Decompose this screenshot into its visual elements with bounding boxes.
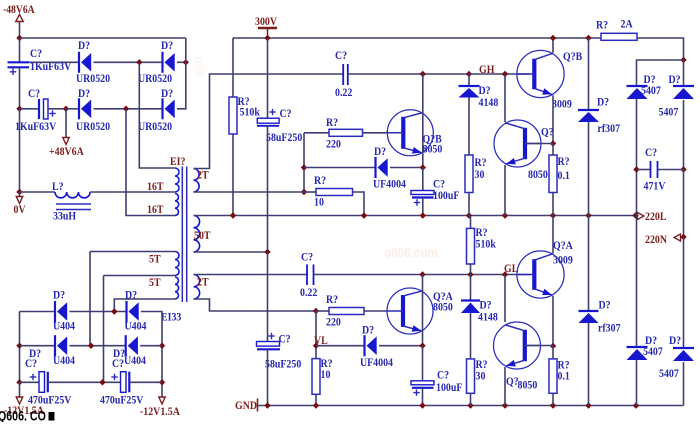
svg-text:-12V1.5A: -12V1.5A [140,405,180,418]
svg-text:GL: GL [504,262,518,275]
capacitor C10 plus sign [30,374,36,380]
resistor R510k lower [467,228,475,264]
junction +48V6A tap [63,106,69,112]
label R? of R10 lower [321,357,333,370]
wire emitter node to C5 [422,168,424,191]
wire left rail down to 0V [19,109,21,192]
svg-text:C?: C? [335,49,347,62]
wire D12 down to cap row [683,100,685,170]
wire -48V6A stem [19,22,21,39]
label D? of D6 [362,324,374,337]
junction gnd rail x470 [467,402,473,408]
value 0.22 of C4 [335,86,352,99]
junction right column cap row [159,379,165,385]
svg-text:2T: 2T [197,169,209,182]
value 1KuF63V of C1 [30,60,71,73]
diode D10 H307 lower [579,311,599,323]
wire branch to left output column [637,60,684,86]
junction GL at PNP branch lower [502,271,508,277]
junction mid rail x553 [550,212,556,218]
junction right column row2 [159,343,165,349]
svg-text:D?: D? [161,39,173,52]
svg-text:D?: D? [597,96,609,109]
svg-text:0V: 0V [14,203,26,216]
diode D2 UR0520 [163,52,175,73]
wire base rail bottom to R220 lower [316,310,329,312]
wire Q3 collector up [552,38,554,53]
svg-text:rf307: rf307 [598,122,621,135]
value 510k of R510k upper [240,106,261,119]
svg-text:EI?: EI? [170,155,185,168]
wire 4148 upper vertical [468,74,470,86]
value 510k of R510k lower [476,238,497,251]
wire R510k down to 50T rail [232,134,234,216]
junction mid rail x588 [585,212,591,218]
diode D13 5407 [627,347,648,360]
capacitor C3 plus sign [269,109,275,115]
label R? of R30 lower [476,358,488,371]
faint watermark smudge 2 [194,57,207,75]
capacitor C2 1KuF63V plates [39,99,48,119]
wire cap row segment 1 [20,381,40,383]
value 8050 of Q2 [433,301,453,314]
resistor R220 upper [329,129,363,136]
value 3009 of Q5 [553,254,573,267]
wire base rail left vertical [303,133,305,192]
resistor R10 upper [316,189,353,196]
turns label 5T upper [149,253,161,266]
resistor R0.1 lower [549,359,557,393]
wire R220 lower to Q2 base [364,310,387,312]
junction gnd rail x637 [633,402,639,408]
wire Q6 emitter down to gnd rail [504,367,506,406]
transistor Q4 Q? 8050 PNP upper [494,120,541,167]
svg-text:D?: D? [53,289,65,302]
capacitor C5 100uF plates [411,191,434,198]
capacitor C8 58uF250 plates [257,342,281,350]
label Q? of Q6 [506,375,519,388]
value 5407 of D11 [641,84,661,97]
transformer winding 2T lower right [194,275,200,300]
wire 2T upper top pin [194,74,344,169]
svg-text:30: 30 [476,370,486,383]
label D? of D14 [669,334,681,347]
diode D7 4148 upper [459,86,480,98]
svg-text:UF4004: UF4004 [373,178,406,191]
inductor L1 core lines [56,204,91,210]
transformer winding 5T upper [175,252,179,276]
value UR0520 of D2 [138,72,173,85]
junction cap row mid [99,379,105,385]
wire R0.1 lower to gnd rail [552,393,554,405]
net label -12V1.5A right [140,405,180,418]
svg-text:220N: 220N [645,233,667,246]
watermark square [49,412,55,421]
svg-text:0.1: 0.1 [558,169,570,182]
svg-text:100uF: 100uF [436,381,463,394]
junction u404 row2 node [88,343,94,349]
svg-text:33uH: 33uH [53,210,77,223]
value 4148 of D7 [479,96,499,109]
transistor Q6 Q? 8050 PNP lower [494,322,541,369]
value UR0520 of D3 [76,120,111,133]
junction Q2 emitter node [419,343,425,349]
value 8050 of Q6 [518,379,538,392]
value 4148 of D9 [478,311,498,324]
label D? of D1 [78,39,90,52]
junction mid rail x422 [420,212,426,218]
capacitor C1 plus sign [10,69,16,75]
svg-text:1KuF63V: 1KuF63V [15,120,56,133]
resistor R30 upper [465,155,473,193]
svg-text:2A: 2A [621,18,633,31]
label D? of D2 [161,39,173,52]
svg-text:16T: 16T [147,180,164,193]
svg-text:510k: 510k [240,106,261,119]
svg-text:Q606. CO: Q606. CO [0,408,46,422]
net label +48V6A [49,145,84,158]
label EI33 of transformer [161,311,182,324]
capacitor C7 100uF plates [411,381,434,388]
diode D14 5407 [673,348,694,361]
label C? of C7 [437,369,449,382]
junction GH at PNP branch [502,71,508,77]
label D? of D9 [480,299,492,312]
svg-text:R?: R? [558,155,570,168]
wire u404 row1 left [20,311,56,313]
diode D17 U404 [55,335,67,356]
value UF4004 of D6 [360,356,393,369]
wire GH to 3009 base [469,73,529,75]
label C? of C5 [433,178,445,191]
wire D13 down to gnd rail [636,360,638,406]
junction mid rail x505 [502,212,508,218]
value 220 of R220 upper [326,138,341,151]
svg-text:UR0520: UR0520 [76,72,111,85]
junction right rail branch [680,57,686,63]
svg-text:30: 30 [475,168,485,181]
wire node x139 down to 16T top pin [139,62,175,168]
wire Q6 base to node [525,345,554,347]
value 0.22 of C6 [300,286,317,299]
watermark text [0,408,46,424]
wire D14 down to gnd rail corner [683,362,685,406]
value 100uF of C7 [436,381,463,394]
svg-text:C?: C? [25,357,37,370]
value 3009 of Q3 [552,98,572,111]
net label 300V [255,15,277,28]
wire left rail to C1 top [19,38,21,62]
value 0.1 of R0.1 upper [558,169,570,182]
wire row2 to D3 [66,108,79,110]
junction cap 471V right [680,166,686,172]
label D? of D16 [125,289,137,302]
value 100uF of C5 [433,189,460,202]
wire VL rail to UF4004 lower [316,345,365,347]
svg-text:5407: 5407 [643,345,663,358]
wire H307 upper vertical top [588,38,590,110]
wire 5T top pin [90,251,175,253]
svg-text:C?: C? [279,333,291,346]
wire +48V6A stem [65,109,67,138]
faint watermark smudge 1 [384,245,438,260]
diode D12 5407 [673,86,694,99]
inductor L1 coil [55,192,90,198]
svg-text:8050: 8050 [433,301,453,314]
junction mid rail x469 [466,212,472,218]
svg-text:C?: C? [645,146,657,159]
wire GH branch down to PNP collector [504,74,506,122]
svg-text:5407: 5407 [641,84,661,97]
value rf307 of D8 [598,122,621,135]
wire ground rail [258,405,684,407]
wire C8 down to gnd rail [267,349,269,405]
wire GL rail [194,274,530,276]
label C? of C11 [112,357,124,370]
svg-text:8050: 8050 [518,379,538,392]
net label 0V [14,203,26,216]
wire Q4 base to node [525,143,554,145]
capacitor C6 0.22 plates bottom [307,265,314,286]
value 10 of R10 upper [314,196,324,209]
wire R30 upper to mid rail [468,193,470,216]
label EI? of transformer [170,155,185,168]
label R? of R0.1 upper [558,155,570,168]
diode D8 H307 upper [578,110,599,122]
wire right rail 237 to D14 [683,237,685,348]
net label VL [314,334,328,347]
turns label 16T lower [147,203,164,216]
wire left column row1 to row2 [19,312,21,383]
wire GL branch down to PNP lower collector [504,275,506,323]
svg-text:100uF: 100uF [433,189,460,202]
label D? of D13 [645,334,657,347]
wire 4148 upper to R30 [468,98,470,156]
junction gnd rail x422 [419,402,425,408]
wire D11 down to cap row [636,99,638,216]
wire H307 lower to gnd rail [588,323,590,406]
value U404 of D16 [125,320,147,333]
svg-text:D?: D? [669,334,681,347]
svg-text:R?: R? [314,174,326,187]
capacitor C1 1KuF63V plates [8,62,30,67]
label R? of R30 upper [475,156,487,169]
svg-text:D?: D? [480,299,492,312]
turns label 5T lower [149,276,161,289]
transformer winding 16T lower [175,194,179,216]
junction cap 471V left [633,166,639,172]
wire 50T top rail [194,215,637,217]
label D? of D3 [78,87,90,100]
junction gnd rail x505 [502,402,508,408]
net label GND [235,399,257,412]
wire R0.1 upper to mid rail [552,193,554,216]
wire fuse to right rail [637,38,684,60]
wire 4148 lower to R30 lower [470,313,472,359]
junction 300V on top rail [264,35,270,41]
net label 220L [645,210,666,223]
wire C5 down to mid rail [422,198,424,216]
label L? of inductor [52,180,64,193]
wire C7 down to gnd rail [422,388,424,406]
resistor R10 lower [312,359,320,395]
svg-text:U404: U404 [53,354,75,367]
value 5407 of D12 [659,106,679,119]
turns label 2T upper [197,169,209,182]
junction gnd rail x588 [585,402,591,408]
svg-text:220L: 220L [645,210,666,223]
turns label 2T lower [197,276,209,289]
svg-text:5T: 5T [149,276,161,289]
wire Q5 emitter down [552,296,554,346]
junction 220N tap [680,234,686,240]
svg-text:C?: C? [301,251,313,264]
svg-text:470uF25V: 470uF25V [28,394,72,407]
wire 5T bottom pin step [114,299,175,312]
svg-text:D?: D? [374,145,386,158]
wire 5T mid down left column [103,276,105,383]
svg-text:L?: L? [52,180,64,193]
label C? of C3 [280,107,292,120]
wire cap row right [658,169,684,171]
value 30 of R30 lower [476,370,486,383]
wire UF4004 rail left [304,167,376,169]
svg-text:D?: D? [161,87,173,100]
wire UF4004 lower to emitter node [379,345,423,347]
transistor Q1 Q?B 8050 [387,110,433,156]
junction gnd rail x316 [313,402,319,408]
capacitor C3 58uF250 plates [257,118,279,126]
wire 5T top down left column [89,252,91,346]
svg-text:0.22: 0.22 [300,286,317,299]
wire mid rail down to R510k lower [470,216,472,229]
junction 50T bottom [264,249,270,255]
value 8050 of Q4 [528,168,548,181]
wire H307 upper to mid rail [588,122,590,216]
power symbol -48V6A (up triangle) [16,15,24,22]
wire u404 row1 right corner [141,312,162,398]
wire top rail down to R510k [232,38,234,97]
wire R30 lower to gnd rail [470,393,472,405]
value 471V of C9 [644,180,666,193]
junction mid rail x233 [230,212,236,218]
svg-text:58uF250: 58uF250 [265,358,302,371]
transformer winding 16T upper [175,168,179,192]
transistor Q5 Q?A 3009 [517,251,564,298]
output marker 220N triangle [674,234,681,241]
wire u404 row2 left [20,345,56,347]
svg-text:GND: GND [235,399,257,412]
wire u404 row1 mid [70,311,127,313]
label Q?A of Q2 [433,290,453,303]
wire VL vertical [315,311,317,359]
diode D5 UF4004 [376,157,388,178]
ground pin tick [257,399,259,412]
svg-text:C?: C? [28,87,40,100]
power symbol 300V bar [258,28,277,38]
svg-text:58uF250: 58uF250 [266,131,303,144]
junction Q5 emitter / PNP base [550,343,556,349]
svg-text:UR0520: UR0520 [138,120,173,133]
label D? of D17 [29,347,41,360]
value U404 of D15 [53,320,75,333]
label C? of C10 [25,357,37,370]
transformer winding 5T lower [175,277,179,299]
junction left column row2 [16,343,22,349]
capacitor C2 plus sign [49,110,55,116]
svg-text:R?: R? [596,19,608,32]
svg-text:Q?B: Q?B [563,50,582,63]
wire top rail left segment [20,37,186,39]
svg-text:R?: R? [326,116,338,129]
wire row2 left to C2 [20,108,40,110]
junction VL node [313,343,319,349]
junction row2 left [16,106,22,112]
label C? of C4 [335,49,347,62]
transformer core [182,167,186,303]
value UR0520 of D1 [76,72,111,85]
svg-text:EI33: EI33 [161,311,182,324]
transformer winding 2T upper right [194,169,200,193]
svg-text:3009: 3009 [553,254,573,267]
wire row1 D1 to node [94,61,163,63]
svg-text:5407: 5407 [659,367,679,380]
junction UF4004 rail left [301,164,307,170]
svg-text:0.22: 0.22 [335,86,352,99]
turns label 50T [194,229,211,242]
diode D11 5407 [627,86,648,99]
diode D1 UR0520 [79,52,91,73]
diode D6 UF4004 lower [365,335,377,356]
wire 0V stem [19,192,21,197]
wire left output column 216 to D13 [636,216,638,348]
transformer winding 50T right [194,216,200,253]
wire 300V rail down to C3 [267,38,269,119]
capacitor C10 470uF25V plates [39,372,48,393]
wire R510k lower to GL rail [470,264,472,275]
wire inductor to 16T mid pin [90,191,175,193]
capacitor C6 wire gap mask [308,273,313,277]
svg-text:UF4004: UF4004 [360,356,393,369]
svg-text:U404: U404 [125,320,147,333]
label C? of C6 [301,251,313,264]
label D? of D7 [479,84,491,97]
svg-text:C?: C? [30,47,42,60]
svg-text:D?: D? [125,289,137,302]
junction VL top node [313,308,319,314]
svg-text:10: 10 [321,368,331,381]
net label GL [504,262,518,275]
net label -12V1.5A left [4,404,44,417]
svg-text:471V: 471V [644,180,666,193]
junction GH at transistor Q1 collector [420,71,426,77]
svg-text:rf307: rf307 [598,322,621,335]
label C? of C8 [279,333,291,346]
diode D16 U404 [127,301,139,322]
value 30 of R30 upper [475,168,485,181]
junction row1 right [183,59,189,65]
power symbol -12V left (down triangle) [16,397,23,404]
svg-text:10: 10 [314,196,324,209]
junction top rail at Q3 [550,35,556,41]
junction top rail at H307 [585,35,591,41]
wire 5T mid pin [104,275,176,277]
wire row1 corner down to row2 [177,62,186,109]
label R? of R0.1 lower [558,359,570,372]
wire right rail to D12 [683,60,685,86]
svg-text:Q?A: Q?A [553,239,573,252]
wire 2T upper bottom pin [194,191,305,193]
